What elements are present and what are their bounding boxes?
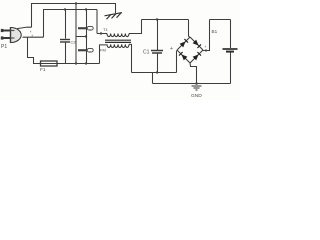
battery B1 plates — [223, 49, 238, 52]
wire battery branch upper — [230, 20, 232, 49]
node at x76 on y63 — [75, 62, 77, 64]
node GND tap — [195, 82, 198, 85]
node on W2 at x65 — [64, 8, 66, 10]
svg-text:+: + — [170, 46, 173, 52]
svg-text:T1: T1 — [103, 27, 108, 32]
wire vertical from plug top to W1 — [31, 4, 33, 28]
wire W1 end drop to chassis ground — [115, 4, 117, 14]
fuse F1 box — [41, 61, 58, 66]
wire C1 branch lower — [157, 54, 159, 73]
wire riser x152 to bottom rail — [152, 73, 154, 84]
transformer T1 core — [105, 40, 131, 42]
fuse F1 center line — [40, 63, 57, 65]
diode D2 top-right arm (points to right corner) — [193, 40, 201, 48]
ground symbol — [192, 86, 202, 90]
svg-text:FM: FM — [100, 48, 106, 53]
wire bridge top riser — [189, 20, 191, 38]
wire jumper x76 to x86 at y36 — [76, 36, 87, 38]
wire W3 — [142, 19, 189, 21]
node at (86,36.5) — [85, 35, 87, 37]
capacitor C1 plates — [151, 51, 163, 54]
wire vertical x65 lower — [65, 43, 67, 64]
transformer T1 primary coil — [107, 34, 129, 37]
tick mark near plug mid terminal — [31, 35, 33, 37]
transformer T1 secondary coil — [107, 44, 129, 47]
wire bottom left rail y63 — [57, 63, 100, 65]
wire vertical x97 from W2 corner — [96, 10, 98, 34]
node on W1 at x76 — [75, 2, 77, 4]
wire W4 — [210, 19, 231, 21]
wire secondary right to riser x131 — [129, 44, 132, 72]
svg-text:B1: B1 — [212, 29, 218, 34]
capacitor C4 oval body — [87, 48, 93, 52]
wire secondary left riser x99 — [100, 45, 108, 64]
wire W2 second wire — [43, 9, 97, 11]
wire plug mid terminal to x43 riser — [23, 36, 44, 38]
wire plug bottom path to fuse — [28, 37, 41, 63]
node on W3 at x157 — [156, 18, 158, 20]
plug P1 prongs — [1, 29, 10, 40]
wire bottom rail y83 — [153, 83, 231, 85]
wire bridge bottom jog — [190, 63, 197, 84]
wire vertical x65 upper — [65, 10, 67, 39]
wire bridge left lead — [176, 51, 178, 73]
capacitor C3 (upper filter element) solid plate — [78, 27, 86, 29]
capacitor C4 (lower filter element) solid plate — [78, 49, 86, 51]
diode D1 top-left arm (points to top corner) — [180, 39, 188, 47]
wire W1 top ground wire — [31, 3, 116, 5]
wire battery branch lower — [230, 53, 232, 84]
wire bridge right lead — [203, 20, 210, 51]
wire vertical x86 — [86, 10, 88, 64]
wire y72 rail — [132, 72, 177, 74]
node at (101,33.5) — [100, 32, 102, 34]
wire vertical x76 from W1 to bottom rail — [75, 4, 77, 64]
wire primary right to riser x141 — [129, 20, 142, 34]
chassis ground symbol — [105, 13, 123, 20]
wire vertical x43 from plug mid terminal to W2 — [43, 10, 45, 38]
plug P1 body — [11, 28, 22, 43]
capacitor C3 oval body — [87, 26, 93, 30]
node y72 at x157 — [156, 71, 158, 73]
node at (206,50.5) — [205, 49, 207, 51]
node on W2 at x86 — [85, 8, 87, 10]
diode D3 bottom-left arm (points to left corner) — [179, 52, 187, 60]
svg-text:P1: P1 — [1, 44, 7, 50]
wire plug top terminal — [17, 27, 32, 29]
tick mark near plug top terminal — [30, 31, 32, 33]
svg-text:F1: F1 — [40, 67, 46, 73]
svg-text:C1: C1 — [143, 50, 150, 56]
tick mark near bridge right corner — [204, 46, 206, 48]
wire C1 branch upper — [157, 20, 159, 51]
diode D4 bottom-right arm (points to right corner) — [193, 52, 201, 60]
capacitor C2 plates on x65 — [60, 40, 70, 43]
svg-text:GND: GND — [191, 93, 202, 99]
bridge rectifier D1-D4 diamond — [177, 37, 203, 63]
node at x86 on y63 — [85, 62, 87, 64]
wire to transformer primary left — [97, 33, 107, 35]
